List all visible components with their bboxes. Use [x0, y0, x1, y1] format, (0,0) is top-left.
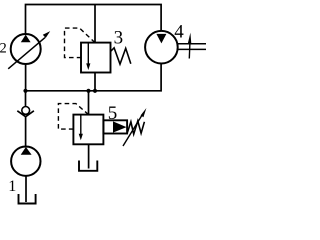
label 1	[8, 177, 16, 195]
motor 4 rotation arrow	[188, 33, 191, 59]
wire pump 2 lower port down to middle bus	[25, 64, 27, 91]
relief valve 3 body	[81, 43, 111, 73]
hydraulic motor 4	[145, 31, 178, 64]
node junction of pump 2, check valve and bus	[23, 89, 27, 93]
check valve	[17, 107, 34, 117]
node junction of valve 5 branch on bus	[86, 89, 90, 93]
svg-text:5: 5	[108, 103, 118, 124]
spring of valve 3	[111, 48, 131, 64]
wire bus junction down to check valve	[25, 91, 27, 107]
wire pump 1 suction into tank	[25, 176, 27, 202]
svg-text:2: 2	[0, 40, 7, 56]
svg-text:1: 1	[8, 177, 16, 195]
pilot line (dashed) of valve 3	[65, 28, 96, 57]
relief valve 5 body	[73, 115, 103, 145]
wire check valve to pump 1 outlet	[25, 117, 27, 147]
svg-text:3: 3	[114, 28, 124, 49]
adjustment arrow of valve 5	[123, 108, 146, 146]
svg-text:4: 4	[174, 21, 184, 42]
boost pump 1	[11, 147, 40, 176]
pilot stage box of valve 5	[103, 120, 127, 133]
tank under valve 5	[79, 161, 97, 171]
pilot line (dashed) of valve 5	[58, 104, 88, 130]
tank under pump 1	[19, 194, 36, 204]
variable displacement pump 2	[8, 31, 50, 69]
label 4	[174, 21, 184, 42]
adjustable spring of valve 5	[127, 121, 144, 134]
wire middle return bus and motor 4 lower line	[26, 63, 162, 91]
wire valve 5 outlet down into tank	[88, 144, 90, 168]
wire top pressure line from pump 2 to motor 4	[26, 5, 162, 34]
node junction of valve 3 outlet on bus	[93, 89, 97, 93]
wire branch from top line down to valve 3 inlet	[94, 5, 96, 43]
wire bus down to valve 5 inlet	[88, 91, 90, 115]
label 5	[108, 103, 118, 124]
motor 4 output shaft	[177, 44, 206, 50]
label 3	[114, 28, 124, 49]
label 2	[0, 40, 7, 56]
wire valve 3 outlet to bus	[94, 73, 96, 91]
